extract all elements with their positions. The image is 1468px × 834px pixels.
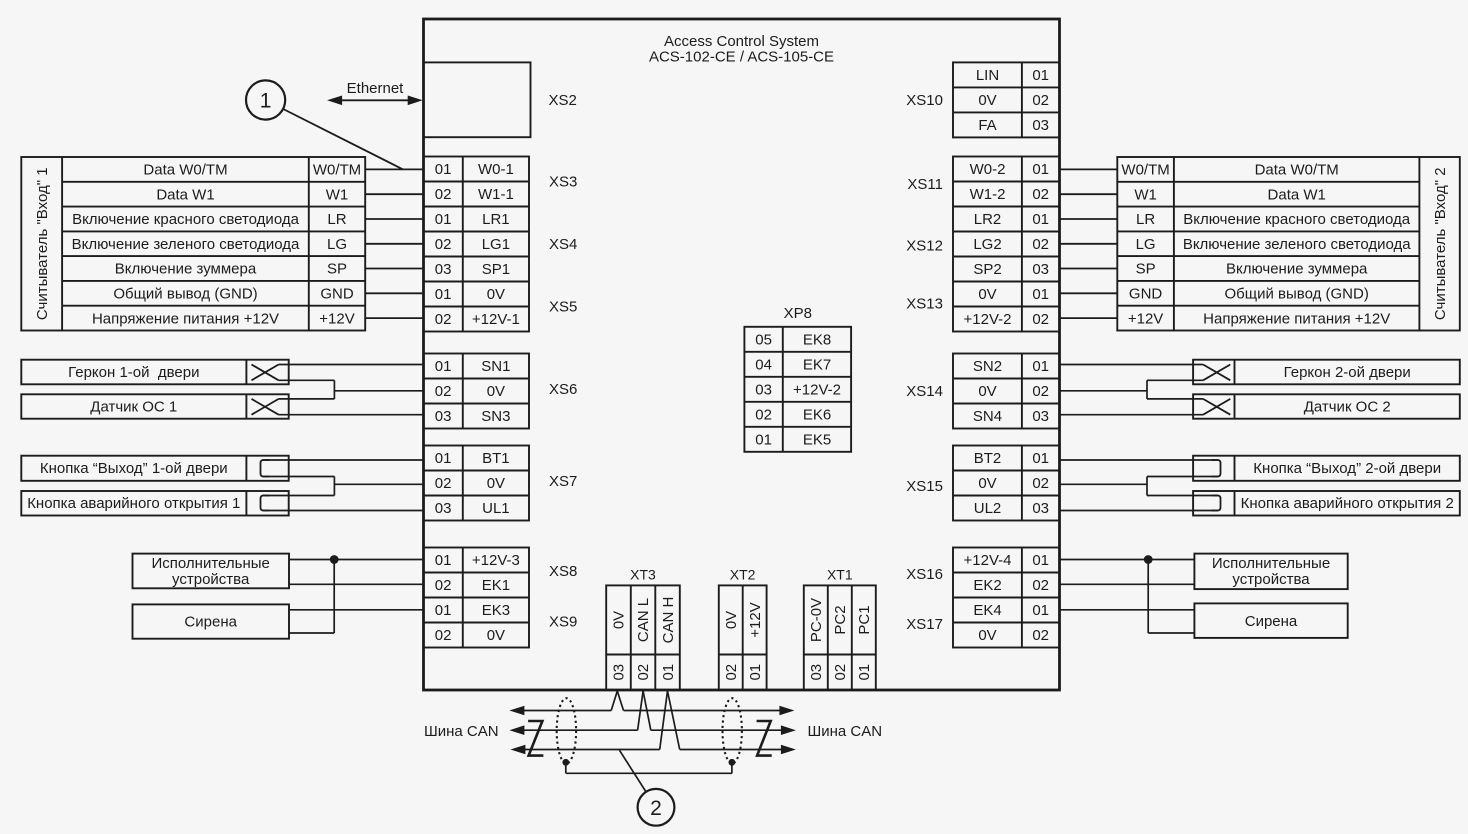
svg-text:устройства: устройства: [1232, 571, 1310, 588]
svg-text:XS17: XS17: [906, 616, 943, 633]
svg-text:Access Control System: Access Control System: [664, 33, 819, 50]
svg-text:Сирена: Сирена: [184, 614, 237, 631]
svg-text:01: 01: [1032, 358, 1049, 375]
svg-text:Шина CAN: Шина CAN: [808, 723, 883, 740]
svg-text:Исполнительные: Исполнительные: [1212, 555, 1330, 572]
svg-text:0V: 0V: [611, 611, 628, 629]
svg-text:EK2: EK2: [973, 577, 1001, 594]
svg-text:Напряжение питания +12V: Напряжение питания +12V: [92, 310, 279, 327]
svg-text:01: 01: [660, 664, 677, 681]
svg-text:EK8: EK8: [803, 332, 831, 349]
svg-text:XS7: XS7: [549, 473, 577, 490]
svg-text:LR1: LR1: [482, 211, 510, 228]
svg-text:01: 01: [435, 552, 452, 569]
svg-text:03: 03: [435, 261, 452, 278]
svg-text:03: 03: [808, 664, 825, 681]
svg-text:02: 02: [1032, 475, 1049, 492]
svg-text:BT1: BT1: [482, 450, 510, 467]
svg-text:W0/TM: W0/TM: [1121, 162, 1169, 179]
svg-text:03: 03: [1032, 500, 1049, 517]
svg-text:CAN L: CAN L: [635, 598, 652, 642]
svg-text:Сирена: Сирена: [1245, 613, 1298, 630]
svg-text:02: 02: [435, 311, 452, 328]
svg-text:03: 03: [1032, 117, 1049, 134]
svg-text:XS9: XS9: [549, 614, 577, 631]
svg-text:+12V: +12V: [1128, 310, 1163, 327]
svg-text:XS15: XS15: [906, 478, 943, 495]
svg-text:Data W0/TM: Data W0/TM: [143, 162, 227, 179]
svg-text:03: 03: [1032, 261, 1049, 278]
svg-text:+12V-3: +12V-3: [472, 552, 520, 569]
svg-text:02: 02: [1032, 236, 1049, 253]
svg-text:PC2: PC2: [832, 605, 849, 634]
svg-text:SN2: SN2: [973, 358, 1002, 375]
svg-text:W0/TM: W0/TM: [313, 162, 361, 179]
svg-text:01: 01: [1032, 161, 1049, 178]
svg-text:01: 01: [755, 432, 772, 449]
svg-text:EK4: EK4: [973, 602, 1001, 619]
svg-text:EK5: EK5: [803, 432, 831, 449]
svg-text:02: 02: [1032, 311, 1049, 328]
svg-text:Data W0/TM: Data W0/TM: [1255, 162, 1339, 179]
svg-text:UL1: UL1: [482, 500, 510, 517]
svg-text:Считыватель "Вход" 1: Считыватель "Вход" 1: [34, 167, 51, 320]
svg-text:01: 01: [435, 358, 452, 375]
svg-text:+12V-2: +12V-2: [964, 311, 1012, 328]
svg-text:Геркон 1-ой двери: Геркон 1-ой двери: [68, 364, 199, 381]
svg-text:2: 2: [650, 797, 662, 820]
svg-text:02: 02: [435, 577, 452, 594]
svg-text:Исполнительные: Исполнительные: [152, 555, 270, 572]
svg-text:01: 01: [1032, 602, 1049, 619]
svg-text:XS3: XS3: [549, 174, 577, 191]
svg-text:02: 02: [435, 236, 452, 253]
svg-text:+12V-1: +12V-1: [472, 311, 520, 328]
svg-text:LR: LR: [1136, 211, 1155, 228]
svg-text:1: 1: [260, 90, 272, 113]
svg-text:SP1: SP1: [482, 261, 510, 278]
svg-text:01: 01: [856, 664, 873, 681]
svg-text:02: 02: [755, 407, 772, 424]
svg-text:ACS-102-CE / ACS-105-CE: ACS-102-CE / ACS-105-CE: [649, 49, 834, 66]
svg-text:Кнопка аварийного открытия 1: Кнопка аварийного открытия 1: [27, 495, 240, 512]
svg-text:03: 03: [1032, 408, 1049, 425]
svg-text:Кнопка “Выход” 2-ой двери: Кнопка “Выход” 2-ой двери: [1253, 460, 1441, 477]
svg-text:EK7: EK7: [803, 357, 831, 374]
svg-text:XS12: XS12: [906, 238, 943, 255]
svg-text:0V: 0V: [487, 286, 505, 303]
svg-text:Напряжение питания +12V: Напряжение питания +12V: [1203, 310, 1390, 327]
svg-text:Data W1: Data W1: [1268, 186, 1326, 203]
svg-text:UL2: UL2: [974, 500, 1002, 517]
svg-text:02: 02: [435, 383, 452, 400]
svg-text:0V: 0V: [978, 286, 996, 303]
svg-text:LR: LR: [327, 211, 346, 228]
svg-text:Включение зеленого светодиода: Включение зеленого светодиода: [1183, 236, 1411, 253]
svg-text:0V: 0V: [978, 475, 996, 492]
svg-text:W0-1: W0-1: [478, 161, 514, 178]
svg-text:CAN H: CAN H: [660, 597, 677, 644]
svg-text:XS5: XS5: [549, 299, 577, 316]
svg-text:+12V: +12V: [747, 602, 764, 637]
svg-text:устройства: устройства: [172, 571, 250, 588]
svg-text:01: 01: [747, 664, 764, 681]
svg-text:W0-2: W0-2: [970, 161, 1006, 178]
svg-text:XS11: XS11: [907, 176, 943, 193]
svg-text:01: 01: [1032, 211, 1049, 228]
svg-text:Общий вывод (GND): Общий вывод (GND): [1225, 286, 1369, 303]
svg-text:XS10: XS10: [906, 92, 943, 109]
svg-text:Датчик ОС 2: Датчик ОС 2: [1304, 399, 1391, 416]
svg-text:01: 01: [435, 211, 452, 228]
svg-text:W1-2: W1-2: [970, 186, 1006, 203]
svg-text:02: 02: [723, 664, 740, 681]
svg-text:Кнопка “Выход” 1-ой двери: Кнопка “Выход” 1-ой двери: [40, 460, 228, 477]
svg-text:BT2: BT2: [974, 450, 1002, 467]
svg-text:LIN: LIN: [976, 67, 999, 84]
svg-text:EK3: EK3: [482, 602, 510, 619]
svg-text:W1: W1: [1134, 186, 1157, 203]
svg-text:02: 02: [832, 664, 849, 681]
svg-text:XS16: XS16: [906, 566, 943, 583]
svg-text:+12V-4: +12V-4: [964, 552, 1012, 569]
svg-text:02: 02: [1032, 186, 1049, 203]
svg-text:01: 01: [1032, 286, 1049, 303]
svg-text:01: 01: [435, 602, 452, 619]
svg-text:Геркон 2-ой двери: Геркон 2-ой двери: [1284, 364, 1411, 381]
svg-text:02: 02: [635, 664, 652, 681]
svg-text:PC1: PC1: [856, 605, 873, 634]
svg-text:01: 01: [1032, 67, 1049, 84]
svg-text:02: 02: [1032, 577, 1049, 594]
svg-text:EK1: EK1: [482, 577, 510, 594]
svg-text:03: 03: [435, 408, 452, 425]
svg-text:03: 03: [611, 664, 628, 681]
svg-text:+12V: +12V: [319, 310, 354, 327]
svg-text:XS14: XS14: [906, 383, 943, 400]
svg-text:LG1: LG1: [482, 236, 510, 253]
svg-text:Включение красного светодиода: Включение красного светодиода: [72, 211, 300, 228]
svg-text:LG: LG: [1136, 236, 1156, 253]
svg-text:SN1: SN1: [481, 358, 510, 375]
svg-text:Включение зуммера: Включение зуммера: [1226, 261, 1368, 278]
svg-text:SP2: SP2: [973, 261, 1001, 278]
svg-text:0V: 0V: [487, 383, 505, 400]
svg-text:02: 02: [435, 475, 452, 492]
svg-text:02: 02: [1032, 627, 1049, 644]
svg-text:EK6: EK6: [803, 407, 831, 424]
svg-text:Data W1: Data W1: [156, 186, 214, 203]
svg-text:SN3: SN3: [481, 408, 510, 425]
svg-text:W1-1: W1-1: [478, 186, 514, 203]
svg-text:XT2: XT2: [730, 567, 756, 583]
svg-text:Считыватель "Вход" 2: Считыватель "Вход" 2: [1432, 167, 1449, 320]
svg-text:+12V-2: +12V-2: [793, 382, 841, 399]
svg-text:SP: SP: [1136, 261, 1156, 278]
svg-text:PC-0V: PC-0V: [808, 598, 825, 642]
svg-text:04: 04: [755, 357, 772, 374]
svg-text:0V: 0V: [487, 627, 505, 644]
svg-text:Ethernet: Ethernet: [347, 80, 405, 97]
svg-text:Включение зеленого светодиода: Включение зеленого светодиода: [72, 236, 300, 253]
svg-text:XS4: XS4: [549, 236, 577, 253]
svg-text:02: 02: [1032, 383, 1049, 400]
svg-text:XS2: XS2: [549, 92, 577, 109]
svg-text:GND: GND: [1129, 286, 1163, 303]
svg-text:01: 01: [435, 286, 452, 303]
svg-text:02: 02: [435, 627, 452, 644]
svg-text:0V: 0V: [487, 475, 505, 492]
svg-text:SN4: SN4: [973, 408, 1002, 425]
svg-text:Кнопка аварийного открытия 2: Кнопка аварийного открытия 2: [1241, 495, 1454, 512]
svg-text:LG: LG: [327, 236, 347, 253]
svg-text:SP: SP: [327, 261, 347, 278]
svg-text:XS13: XS13: [906, 296, 943, 313]
svg-text:03: 03: [435, 500, 452, 517]
svg-text:GND: GND: [320, 286, 354, 303]
svg-text:0V: 0V: [723, 611, 740, 629]
svg-text:01: 01: [1032, 450, 1049, 467]
svg-text:01: 01: [1032, 552, 1049, 569]
svg-text:0V: 0V: [978, 383, 996, 400]
svg-text:02: 02: [435, 186, 452, 203]
svg-text:0V: 0V: [978, 627, 996, 644]
svg-text:Шина CAN: Шина CAN: [424, 723, 499, 740]
svg-text:Включение зуммера: Включение зуммера: [115, 261, 257, 278]
svg-text:XT1: XT1: [827, 567, 853, 583]
svg-text:XT3: XT3: [630, 567, 656, 583]
svg-text:05: 05: [755, 332, 772, 349]
svg-text:01: 01: [435, 450, 452, 467]
svg-text:01: 01: [435, 161, 452, 178]
svg-text:XS6: XS6: [549, 381, 577, 398]
svg-text:Датчик ОС 1: Датчик ОС 1: [90, 399, 177, 416]
svg-text:Включение красного светодиода: Включение красного светодиода: [1183, 211, 1411, 228]
svg-text:FA: FA: [978, 117, 996, 134]
svg-text:LR2: LR2: [974, 211, 1002, 228]
svg-text:W1: W1: [326, 186, 349, 203]
svg-text:Общий вывод (GND): Общий вывод (GND): [113, 286, 257, 303]
svg-text:02: 02: [1032, 92, 1049, 109]
svg-text:0V: 0V: [978, 92, 996, 109]
svg-text:XP8: XP8: [784, 305, 812, 322]
svg-text:XS8: XS8: [549, 563, 577, 580]
svg-text:LG2: LG2: [973, 236, 1001, 253]
svg-text:03: 03: [755, 382, 772, 399]
